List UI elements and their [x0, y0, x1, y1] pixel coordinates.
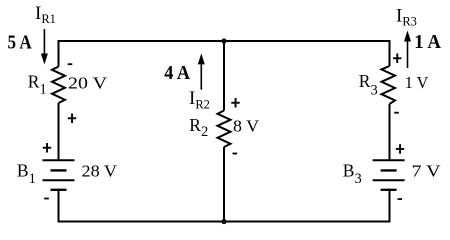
svg-text:1 A: 1 A: [414, 31, 441, 53]
wire right-bottom: [389, 190, 391, 223]
svg-text:B1: B1: [17, 161, 36, 188]
wire top: [58, 40, 391, 42]
label minus B3: [398, 198, 403, 200]
battery B1: [43, 160, 75, 190]
svg-text:20 V: 20 V: [68, 74, 107, 93]
resistor R1: [52, 67, 65, 104]
node bottom junction: [221, 219, 226, 224]
wire left-middle: [58, 103, 60, 160]
label plus R1 bottom: [68, 114, 76, 124]
label plus B1: [43, 143, 51, 153]
wire middle-bottom: [223, 147, 225, 222]
wire middle-top: [223, 41, 225, 111]
svg-text:8 V: 8 V: [233, 116, 259, 135]
label minus R1 top: [68, 63, 73, 65]
svg-text:B3: B3: [343, 160, 362, 187]
wire right-top: [389, 40, 391, 66]
label minus R2: [233, 153, 238, 155]
label minus R3: [394, 112, 399, 114]
svg-text:7 V: 7 V: [412, 161, 441, 180]
wire bottom: [58, 221, 391, 223]
svg-text:1 V: 1 V: [405, 73, 429, 92]
arrow IR1 current down: [41, 29, 48, 65]
resistor R3: [382, 66, 396, 104]
svg-text:IR2: IR2: [189, 88, 210, 112]
svg-text:R1: R1: [28, 72, 47, 98]
resistor R2: [218, 111, 231, 148]
wire left-bottom: [58, 190, 60, 223]
arrow IR2 current up: [198, 53, 205, 89]
label minus B1: [44, 198, 49, 200]
svg-text:28 V: 28 V: [82, 161, 118, 180]
svg-text:R3: R3: [359, 71, 378, 98]
label plus R2: [231, 98, 239, 108]
svg-text:5 A: 5 A: [8, 32, 33, 54]
label plus R3: [393, 54, 401, 64]
label plus B3: [396, 144, 404, 154]
svg-text:R2: R2: [189, 115, 208, 140]
svg-text:4 A: 4 A: [164, 62, 190, 84]
svg-text:IR1: IR1: [35, 3, 56, 26]
arrow IR3 current up: [404, 31, 411, 69]
wire left-top: [58, 40, 60, 67]
svg-text:IR3: IR3: [396, 5, 417, 28]
battery B3: [373, 160, 405, 190]
wire right-middle: [389, 104, 391, 160]
node top junction: [221, 38, 226, 43]
